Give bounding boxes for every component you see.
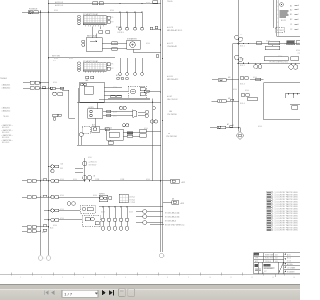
svg-text:001: 001 <box>275 255 278 257</box>
svg-text:ZX200-3: ZX200-3 <box>265 261 271 263</box>
svg-text:C1: C1 <box>290 24 292 26</box>
svg-text:WIPER: WIPER <box>99 193 105 195</box>
svg-text:GN CN-102: GN CN-102 <box>167 99 178 101</box>
svg-text:2: 2 <box>278 6 279 8</box>
svg-text:1 / 7: 1 / 7 <box>64 292 73 297</box>
svg-text:B-01: B-01 <box>50 228 53 230</box>
svg-text:3: 3 <box>278 10 279 12</box>
svg-text:B1: B1 <box>290 14 292 16</box>
svg-text:FUSIBLE: FUSIBLE <box>29 9 38 11</box>
svg-text:1: 1 <box>20 277 21 279</box>
svg-text:◁ AM-B12: ◁ AM-B12 <box>1 110 11 113</box>
svg-text:⊕ CN2 AB-2 (B): ⊕ CN2 AB-2 (B) <box>165 215 180 218</box>
svg-text:1.25B: 1.25B <box>95 179 99 181</box>
svg-text:◁ AM-B11: ◁ AM-B11 <box>1 107 11 110</box>
svg-text:SOL 2: SOL 2 <box>240 65 245 67</box>
svg-text:C2: C2 <box>290 29 292 31</box>
svg-text:4S 00000: 4S 00000 <box>264 268 273 270</box>
svg-text:14: 14 <box>293 277 295 279</box>
svg-text:◁ BAT-PS4 ▪: ◁ BAT-PS4 ▪ <box>1 139 13 142</box>
svg-text:A2: A2 <box>290 8 292 11</box>
svg-text:HORN: HORN <box>89 107 95 109</box>
svg-text:B 0.5: B 0.5 <box>287 258 291 260</box>
svg-text:◁ BAT-PS1 ▪: ◁ BAT-PS1 ▪ <box>1 124 13 127</box>
svg-text:BATT RELAY: BATT RELAY <box>87 35 98 38</box>
svg-text:▪▪▪: ▪▪▪ <box>168 133 170 135</box>
svg-text:( ) COUNTRY PARTS USED: ( ) COUNTRY PARTS USED <box>274 229 299 232</box>
svg-text:S2 SAFETY RELAY: S2 SAFETY RELAY <box>83 60 99 63</box>
svg-text:C 0.5: C 0.5 <box>287 261 291 263</box>
svg-text:F1: F1 <box>112 64 114 66</box>
svg-text:P1 SENS: P1 SENS <box>285 43 294 45</box>
svg-text:TB-B04: TB-B04 <box>0 78 8 80</box>
svg-text:ZAXIS: ZAXIS <box>265 264 271 267</box>
svg-text:AT TEST: AT TEST <box>277 29 285 32</box>
svg-text:10: 10 <box>209 277 211 279</box>
svg-text:SOL 3: SOL 3 <box>240 83 245 85</box>
svg-text:MR-RELAY NO.1: MR-RELAY NO.1 <box>167 29 183 32</box>
svg-text:SOL 4: SOL 4 <box>240 103 245 105</box>
svg-text:B: B <box>298 9 299 11</box>
svg-text:B W R G: B W R G <box>118 77 125 79</box>
svg-text:002: 002 <box>275 258 278 260</box>
svg-text:⊕ CN3 AB-3: ⊕ CN3 AB-3 <box>165 219 177 222</box>
svg-text:CN-TER NO: CN-TER NO <box>166 136 178 138</box>
svg-text:MR RELAY2: MR RELAY2 <box>167 78 179 81</box>
svg-text:F: F <box>298 29 299 31</box>
svg-text:○○: ○○ <box>240 34 242 36</box>
svg-text:ALT: ALT <box>92 124 95 127</box>
svg-text:B2: B2 <box>290 19 292 21</box>
svg-text:P1: P1 <box>298 43 300 45</box>
svg-text:E: E <box>298 24 299 26</box>
svg-text:C CN-3: C CN-3 <box>130 202 136 204</box>
svg-text:B W R G: B W R G <box>118 32 125 34</box>
svg-text:3: 3 <box>62 277 63 279</box>
svg-text:A CN-1: A CN-1 <box>130 196 135 199</box>
svg-text:⊕ LC2: ⊕ LC2 <box>167 42 174 45</box>
svg-text:0.5: 0.5 <box>42 195 44 197</box>
svg-text:003: 003 <box>275 261 278 263</box>
svg-text:SOL 1: SOL 1 <box>240 46 245 48</box>
svg-text:B CN-2: B CN-2 <box>130 199 136 201</box>
svg-text:CN-TER10: CN-TER10 <box>167 114 178 116</box>
svg-text:7: 7 <box>278 26 279 28</box>
svg-text:F2: F2 <box>112 68 114 70</box>
svg-text:9: 9 <box>188 277 189 279</box>
svg-text:⊕ GC: ⊕ GC <box>167 95 173 98</box>
svg-text:◁ BAT-PS3 ▪: ◁ BAT-PS3 ▪ <box>1 134 13 137</box>
svg-text:0.5: 0.5 <box>42 179 44 181</box>
svg-text:12: 12 <box>251 277 253 279</box>
svg-text:6: 6 <box>278 22 279 24</box>
svg-text:F1: F1 <box>112 17 114 19</box>
svg-text:A7: A7 <box>227 123 229 126</box>
svg-text:ELEC SYS: ELEC SYS <box>265 258 273 260</box>
svg-text:0.5G: 0.5G <box>296 50 300 52</box>
svg-text:⊕ CN1 AB-1 (A): ⊕ CN1 AB-1 (A) <box>165 211 180 214</box>
svg-text:8: 8 <box>167 277 168 279</box>
svg-text:4: 4 <box>83 277 84 279</box>
svg-text:⊞ R2 0.5: ⊞ R2 0.5 <box>55 4 64 7</box>
svg-text:1/7: 1/7 <box>264 271 267 273</box>
svg-text:11: 11 <box>230 277 232 279</box>
svg-text:M4: M4 <box>228 77 230 79</box>
svg-text:1.25B: 1.25B <box>120 179 124 181</box>
svg-text:5: 5 <box>104 277 105 279</box>
svg-text:⊕ LC3: ⊕ LC3 <box>167 26 174 29</box>
svg-text:◁ AM-B21: ◁ AM-B21 <box>1 84 11 87</box>
svg-text:6: 6 <box>125 277 126 279</box>
svg-text:S1 SAFETY RELAY: S1 SAFETY RELAY <box>83 13 99 16</box>
svg-text:M6: M6 <box>228 98 230 100</box>
svg-text:CN-RELAY: CN-RELAY <box>167 45 178 48</box>
svg-text:TB-B09: TB-B09 <box>3 116 9 118</box>
svg-text:13: 13 <box>272 277 274 279</box>
svg-text:5: 5 <box>278 18 279 20</box>
svg-text:DC24: DC24 <box>108 127 112 129</box>
svg-text:⊕ W25 0.5: ⊕ W25 0.5 <box>89 161 97 164</box>
svg-text:⊕ L03: ⊕ L03 <box>167 75 173 78</box>
svg-text:M STARTER: M STARTER <box>127 37 137 40</box>
svg-text:FLOW CONTROL SOL: FLOW CONTROL SOL <box>270 62 289 64</box>
svg-text:B-02: B-02 <box>42 232 45 234</box>
svg-text:1: 1 <box>164 255 165 257</box>
svg-text:1: 1 <box>44 258 45 260</box>
svg-text:TB-05: TB-05 <box>167 1 173 3</box>
svg-text:▫▫ ▫: ▫▫ ▫ <box>53 60 56 62</box>
svg-text:E1: E1 <box>232 125 234 127</box>
svg-text:⊞ CN GND WIRE (C): ⊞ CN GND WIRE (C) <box>165 223 185 226</box>
svg-text:EC-21: EC-21 <box>281 20 286 22</box>
svg-text:◁ AM-B22: ◁ AM-B22 <box>1 87 11 90</box>
svg-text:1: 1 <box>278 2 279 4</box>
svg-text:P2: P2 <box>298 53 300 55</box>
svg-text:F2: F2 <box>112 21 114 23</box>
svg-text:7: 7 <box>146 277 147 279</box>
svg-text:2: 2 <box>41 277 42 279</box>
svg-text:◁ BAT-PS2 ▪: ◁ BAT-PS2 ▪ <box>1 129 13 132</box>
svg-text:4: 4 <box>278 14 279 16</box>
svg-text:FU3: FU3 <box>60 168 63 170</box>
svg-text:A1: A1 <box>290 4 292 7</box>
svg-text:⊞ R1 0.5: ⊞ R1 0.5 <box>55 1 64 4</box>
